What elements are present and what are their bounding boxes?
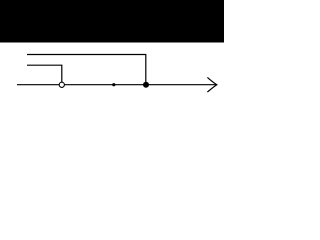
wire: top feedback line with corner down to junction <box>27 55 146 85</box>
node: solid junction dot <box>143 82 149 88</box>
wire: second stub line with corner down to circle <box>27 65 62 82</box>
node: open circle junction <box>59 82 64 87</box>
wire: main horizontal signal line <box>17 84 216 86</box>
black header bar <box>0 0 224 43</box>
node: small solid dot <box>112 83 115 86</box>
arrowhead <box>207 77 216 92</box>
